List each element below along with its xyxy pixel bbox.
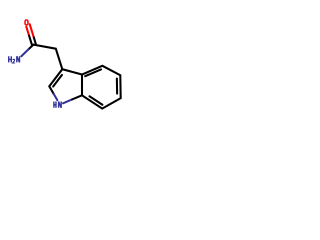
bond C2-N1 — [49, 86, 53, 94]
benzene ring bonds C7a-C3a, C3a=C4, C4-C5, C5=C6, C6-C7, C7=C7a — [82, 66, 121, 109]
bond C3a=C4 inner line — [85, 69, 101, 76]
bond N1-C7a — [63, 99, 72, 103]
bond C1-N amide — [28, 45, 33, 50]
atom label O (carbonyl oxygen) — [25, 20, 28, 25]
bond C7=C7a inner line — [89, 96, 102, 105]
atom label H2N: N — [17, 56, 20, 62]
atom label H2N: H — [9, 56, 12, 62]
atom label HN (indole N1): H — [54, 102, 56, 108]
bonds C3a-C3 and C3=C2 main — [49, 69, 82, 86]
bonds C1-CH2 and CH2-C3 — [33, 45, 62, 70]
atom label H2N: subscript 2 — [13, 59, 16, 63]
bond C1=O double-bond line — [30, 24, 34, 37]
atom label HN (indole N1): N — [59, 102, 62, 108]
bond C3=C2 inner line — [53, 75, 62, 87]
bond C5=C6 inner line — [116, 78, 118, 93]
